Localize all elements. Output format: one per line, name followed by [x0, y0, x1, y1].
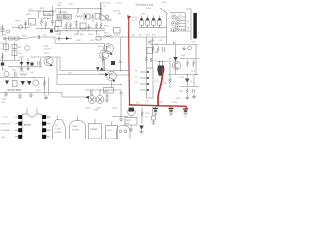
wire: verticals below y74.5	[187, 75, 194, 87]
wire: stub above IC852	[77, 116, 79, 121]
regulator IC851 (chamfered arch)	[53, 120, 66, 139]
wires: right pin leads	[46, 117, 49, 137]
node on supply bus	[100, 8, 101, 9]
dropper component 2 (dark+green)	[170, 107, 172, 109]
svg-text:1k: 1k	[155, 60, 157, 62]
node	[122, 37, 123, 38]
wires: socket leads to vertical bus	[175, 17, 185, 30]
svg-text:X802: X802	[65, 17, 69, 19]
wire: vertical x103 below Q405	[102, 54, 104, 71]
pin pad R3	[42, 128, 46, 132]
wire: drop to Q1101	[60, 9, 62, 15]
svg-text:25kV: 25kV	[162, 2, 167, 4]
switch S801 body	[3, 37, 6, 40]
resistor R804 vertical	[40, 18, 42, 26]
node on wire	[41, 28, 42, 29]
regulator box X851	[125, 118, 137, 126]
svg-text:BOARD: BOARD	[72, 129, 80, 132]
resistor R431 vertical	[145, 56, 147, 63]
wire: horizontal y86.5	[180, 86, 199, 88]
svg-text:B+ TP: B+ TP	[132, 20, 138, 22]
capacitor C430 bars	[148, 42, 152, 44]
svg-text:AFC: AFC	[105, 90, 110, 93]
wire: bus under cap bank	[139, 27, 167, 29]
wire: vertical line left of CRT	[190, 9, 192, 41]
wire: vertical x28	[27, 58, 29, 67]
diode D402	[20, 62, 24, 65]
wire: vertical x14.5	[14, 42, 16, 60]
CRT face (dark bar)	[193, 13, 196, 39]
wire: vertical x107 below box	[106, 93, 108, 100]
capacitor C405	[15, 72, 16, 78]
part near x96	[96, 37, 101, 41]
transistor Q404 legs	[102, 52, 106, 59]
svg-text:KIA78: KIA78	[126, 119, 132, 122]
node	[78, 30, 79, 31]
transistor Q405 body	[104, 44, 114, 54]
node	[66, 30, 67, 31]
capacitor C442	[193, 89, 194, 93]
svg-text:fly bk: fly bk	[117, 3, 122, 5]
svg-text:22 15W: 22 15W	[44, 14, 51, 16]
resistor R813 vertical	[69, 22, 71, 29]
wire: mid horizontal bus y28	[62, 27, 105, 29]
wire: horizontal under resistor pair	[36, 28, 56, 30]
IC block X803	[80, 23, 86, 29]
node	[103, 70, 104, 71]
svg-text:4.7k: 4.7k	[58, 21, 62, 23]
wire: stub above IC851	[57, 116, 59, 120]
capacitor C812	[91, 14, 94, 19]
box part near (115,28)	[114, 28, 121, 34]
ground symbol under D851	[140, 130, 144, 135]
node	[18, 77, 19, 78]
part dark (30,62)	[31, 63, 34, 66]
box part above balloons	[104, 88, 114, 94]
wire: into box	[130, 116, 132, 129]
svg-text:test pad: test pad	[113, 10, 120, 13]
wire stubs cap bank to bus	[142, 25, 160, 28]
wire: vertical x196	[195, 45, 197, 75]
resistor R811 horizontal	[76, 16, 83, 18]
transistor Q405 legs	[106, 45, 110, 52]
wire: diagonal lead	[160, 8, 168, 14]
wire: horizontal y84.5	[57, 84, 121, 86]
svg-text:reg: reg	[103, 6, 106, 8]
svg-text:1k: 1k	[190, 81, 192, 83]
wires: left pin leads	[15, 117, 18, 137]
node	[187, 74, 188, 75]
resistor R422 vertical	[102, 56, 104, 64]
red wire: horizontal highlight rail	[129, 105, 186, 106]
diode D851	[139, 126, 143, 130]
ground symbol (6,93)	[4, 92, 8, 97]
wire: vertical x170 lower	[169, 75, 171, 89]
wire: far-left vertical	[2, 25, 4, 36]
red wire: main vertical highlight	[128, 19, 131, 105]
box filter FL801	[84, 14, 90, 19]
transistor T402 body	[4, 71, 9, 76]
box part (12.5,80.5)	[13, 81, 18, 87]
svg-text:X801: X801	[57, 17, 61, 19]
svg-text:2SC: 2SC	[2, 102, 6, 104]
cap C824	[159, 16, 161, 19]
regulator IC852 (dome)	[70, 121, 86, 140]
red wire: thick drop from flyback plug	[158, 68, 163, 105]
resistor R421 horizontal	[105, 35, 112, 37]
wire: vertical at x101	[100, 2, 102, 20]
svg-text:1k: 1k	[92, 21, 94, 23]
wire: stub y20	[100, 19, 112, 21]
arrowhead left on y97 wire	[85, 96, 89, 99]
wire: vertical x166.5 to B+ rail	[166, 14, 168, 45]
transistor T401 small	[25, 46, 30, 51]
svg-text:C82x: C82x	[141, 14, 146, 16]
wire: vertical x48.5	[48, 78, 50, 96]
svg-text:(TP): (TP)	[117, 14, 121, 16]
wire: horizontal y70.5 center	[98, 70, 129, 72]
module M852 (box)	[106, 126, 118, 140]
node	[12, 77, 13, 78]
ground symbol (22,68)	[20, 67, 23, 71]
wire: horizontal y66.8	[8, 66, 42, 68]
capacitor C857 bars	[106, 96, 109, 98]
CRT socket pin 5	[172, 28, 176, 32]
resistor R805 vertical	[45, 21, 47, 29]
resistor R443 vertical	[192, 60, 194, 67]
transistor Q852 body	[107, 71, 117, 81]
svg-text:CN85: CN85	[93, 110, 99, 112]
wire: horizontal y75 stub	[110, 74, 129, 76]
flyback plug (dark blob)	[157, 66, 164, 76]
resistor R803 (boxed, dark label)	[44, 12, 54, 16]
dropper component 3 (dark)	[185, 107, 187, 109]
dropper component 1 (dark+green)	[155, 107, 157, 109]
svg-text:VERT DEF: VERT DEF	[74, 34, 85, 36]
small parts left under rail	[152, 116, 156, 120]
diode D407 pair	[96, 67, 99, 70]
node	[96, 30, 97, 31]
wire: drop from Q852 to box	[111, 81, 113, 88]
svg-text:VR80: VR80	[15, 21, 21, 23]
svg-text:2SC248: 2SC248	[44, 49, 52, 51]
wire: vertical x6	[5, 40, 7, 52]
resistor R446 vertical on x170 lower	[169, 78, 171, 84]
resistor R801 (left edge)	[1, 29, 4, 32]
wire: vertical x146.5	[146, 37, 148, 68]
svg-text:SW: SW	[18, 47, 21, 49]
svg-text:REG: REG	[108, 130, 113, 132]
pin pad R4	[42, 135, 46, 139]
wire: vertical x40.5	[40, 58, 42, 67]
CRT socket pin 3	[171, 21, 175, 25]
diode D405	[21, 81, 25, 85]
arrow head on y74.5 wire	[105, 73, 109, 76]
svg-text:180V: 180V	[26, 14, 31, 16]
diode D801 marks	[50, 30, 53, 33]
electrolytic cap bank: cap C821	[141, 16, 143, 19]
node	[104, 70, 105, 71]
capacitor C440	[163, 47, 164, 52]
ground near CRT bottom	[182, 47, 186, 51]
wire: deflection box bottom edge	[60, 70, 105, 72]
resistor R444 vertical	[186, 88, 188, 94]
pin pad L3	[18, 128, 22, 132]
box T801	[95, 14, 100, 20]
transistor Q851 (dark)	[128, 108, 136, 116]
Q851 dark cap	[129, 108, 134, 112]
node	[100, 90, 101, 91]
transistor Q803 small	[105, 15, 109, 19]
svg-text:AN5601: AN5601	[24, 124, 32, 127]
wire: vertical x121 down	[120, 90, 122, 117]
diode D403	[26, 62, 30, 65]
wire: stub y38	[56, 38, 72, 40]
ground symbol (20,95)	[18, 94, 22, 99]
jack J802 small circle	[6, 30, 9, 33]
wire: socket top lead	[170, 12, 186, 14]
capacitor C425 bars	[119, 61, 122, 63]
box part left (55.5,20.5)	[56, 21, 62, 27]
capacitor C856 bars on x121	[120, 93, 123, 95]
box part (12,50)	[12, 51, 17, 56]
transistor Q801 body	[18, 25, 22, 29]
CRT socket pin 4	[175, 25, 179, 29]
node	[104, 37, 105, 38]
svg-text:HV ADJ: HV ADJ	[44, 17, 51, 20]
node on supply bus	[78, 8, 79, 9]
svg-text:MAIN: MAIN	[73, 125, 79, 128]
wire: left cluster horizontal	[12, 27, 30, 29]
node on rail	[21, 38, 22, 39]
node	[44, 11, 45, 12]
wire: diagonal lead	[100, 13, 110, 21]
cap C822	[147, 16, 149, 19]
diode D404	[5, 81, 9, 85]
capacitor C801	[24, 23, 27, 24]
resistor R814 vertical	[95, 22, 97, 29]
wire: vertical x120.5	[120, 38, 122, 71]
node	[60, 30, 61, 31]
ground symbol (107,100)	[105, 99, 109, 103]
svg-text:GND: GND	[1, 137, 6, 139]
SCR D409 balloon	[96, 96, 104, 104]
wire: horizontal y58.5	[180, 58, 199, 60]
node	[88, 30, 89, 31]
transistor TO92 front (small dome)	[117, 126, 131, 140]
wire: mid horizontal y37	[98, 36, 167, 38]
red stub at right end	[185, 106, 186, 110]
transistor Q401 body	[44, 56, 53, 65]
resistor R807 boxed	[9, 37, 14, 40]
svg-text:R-Y 1: R-Y 1	[3, 117, 9, 119]
transistor Q401 legs	[47, 58, 51, 64]
wire: vertical x44.5	[44, 78, 46, 96]
svg-text:VIDEO IN 2: VIDEO IN 2	[1, 124, 12, 126]
transistor Q404 body	[99, 50, 108, 59]
wire: vertical x38.5	[38, 11, 40, 18]
wire: horizontal y90 right part	[85, 89, 121, 91]
connector J801 (box)	[29, 19, 36, 26]
svg-text:BSC25 N031: BSC25 N031	[8, 89, 23, 92]
wire: mid horizontal bus y31	[55, 30, 105, 32]
node	[196, 74, 197, 75]
red test-point marker (arrow + label)	[127, 15, 131, 19]
wire: stub down to balloon 2	[99, 90, 101, 95]
wire: stub down to balloon 1	[90, 90, 92, 95]
part dark left edge	[1, 63, 4, 66]
ground symbol (187,98)	[185, 95, 189, 100]
resistor R806 small	[55, 27, 59, 32]
pin pad L4	[18, 135, 22, 139]
diode D440	[173, 57, 177, 61]
cap C823	[153, 16, 155, 19]
resistor R441 vertical	[157, 46, 159, 53]
resistor R405 horizontal	[20, 74, 27, 76]
CRT socket pin 1	[172, 15, 176, 19]
wire: vertical x152.5	[152, 37, 154, 68]
wire stubs below mid bus	[60, 31, 97, 34]
node: rail junction mid	[157, 105, 159, 107]
transistor Q407 body	[172, 61, 180, 69]
TO92 eye holes	[119, 130, 122, 133]
svg-text:FRONT: FRONT	[91, 129, 99, 131]
wire: horizontal y74.5 right	[168, 74, 199, 76]
node	[121, 84, 122, 85]
svg-text:10u: 10u	[145, 117, 148, 119]
ground symbol x121	[119, 117, 123, 122]
capacitor C815	[59, 37, 60, 41]
node	[52, 11, 53, 12]
capacitor C816 vertical bars	[75, 21, 78, 29]
CRT socket pin 2	[176, 18, 180, 22]
ground symbol (153,122)	[152, 120, 156, 125]
box part (12,44)	[12, 45, 17, 49]
wire: far-left vertical x2.5	[2, 52, 4, 70]
capacitor C813	[88, 24, 91, 30]
svg-text:1.5k: 1.5k	[20, 71, 24, 73]
diode D406	[27, 81, 31, 85]
wire: lead above M852	[111, 122, 113, 126]
svg-text:B+ 115V: B+ 115V	[103, 3, 111, 5]
svg-text:1.2k: 1.2k	[29, 9, 33, 11]
resistor R402 vertical	[1, 54, 3, 60]
wire: leads above plug	[157, 61, 165, 66]
wire: horizontal y60.5	[0, 60, 20, 62]
resistor R442 vertical	[186, 60, 188, 67]
node	[112, 37, 113, 38]
wire: drop at x100	[100, 2, 102, 20]
svg-text:50Hz: 50Hz	[88, 34, 93, 36]
resistor R812 vertical	[65, 22, 67, 29]
resistor R407 vertical	[43, 80, 45, 88]
wire: corner into deflection box	[54, 37, 56, 44]
IC X802 (dark label block)	[65, 14, 72, 19]
svg-text:H.OUT: H.OUT	[114, 35, 121, 37]
IC X801 (dark label block)	[57, 14, 64, 19]
wire: horizontal y92.5 with step	[0, 93, 85, 98]
wire: vertical x21.5	[21, 58, 23, 67]
diode D810	[66, 37, 69, 40]
capacitor C431	[150, 58, 151, 62]
module M851 (box)	[89, 124, 102, 140]
wire: vertical x142	[141, 107, 143, 124]
wire: drop from rail x152.5	[152, 107, 154, 116]
wire: emitter drop to bottom edge	[104, 59, 106, 70]
dark emitter mark Q405	[110, 52, 113, 55]
ground symbol under box	[129, 129, 133, 132]
svg-text:10u: 10u	[43, 35, 46, 37]
node on wire	[45, 28, 46, 29]
part right of rail: circle	[188, 46, 192, 50]
svg-text:Technics bd: Technics bd	[135, 3, 153, 7]
dark emitter mark Q401	[50, 64, 53, 67]
ground symbol (28,68)	[26, 67, 29, 71]
node: junction on top-left bus	[40, 11, 41, 12]
can transistor Q402	[33, 80, 39, 86]
dark part near (112,62)	[111, 61, 115, 65]
node: rail junction left	[129, 104, 131, 106]
wire: horizontal y77.5	[0, 77, 44, 79]
wire: lower-left horizontal rail	[3, 37, 55, 39]
capacitor C403	[38, 61, 39, 66]
wire: socket vertical bus	[185, 13, 187, 31]
connector CN402 (tall box with pins)	[147, 68, 154, 98]
pin pad R2	[42, 122, 46, 126]
diode D441	[185, 79, 189, 83]
dark emitter mark Q852	[113, 79, 116, 82]
IC IC801 DIP body with notch	[22, 114, 42, 139]
svg-text:CHROMA 3: CHROMA 3	[1, 129, 12, 132]
resistor R808 boxed	[15, 37, 20, 40]
wire: top-left horizontal bus	[28, 10, 56, 12]
wire: socket bottom rail	[170, 30, 191, 32]
capacitor C802	[51, 6, 54, 26]
resistor R815 vertical	[100, 22, 102, 29]
wire: top supply bus	[55, 8, 102, 10]
wire: left edge of lower box	[56, 57, 58, 85]
pin pad L2	[18, 122, 22, 126]
wire: deflection box top edge	[55, 43, 105, 45]
wire: B+ rail y44.5	[150, 44, 198, 46]
ground symbol (194,96)	[192, 94, 196, 99]
wire: vertical x175.5	[175, 45, 177, 75]
box part (147,47.5)	[147, 48, 153, 54]
ground symbol (31,94)	[29, 93, 33, 98]
wires: stubs above DIP	[27, 109, 37, 115]
svg-text:12V REG: 12V REG	[58, 12, 67, 14]
node	[120, 70, 121, 71]
svg-text:5.0 RE: 5.0 RE	[55, 129, 62, 131]
resistor R851 vertical	[141, 111, 143, 118]
wire: drop from bus	[77, 9, 79, 15]
capacitor C803	[38, 35, 39, 39]
ground symbol (46,96)	[44, 95, 48, 100]
wire: left cluster vertical	[25, 21, 27, 30]
wire: vertical x170	[169, 58, 171, 75]
wire: y117 stub right	[113, 116, 129, 118]
pin pad L1	[18, 115, 22, 119]
resistor R440 vertical	[152, 46, 154, 53]
svg-text:BOARD: BOARD	[55, 131, 63, 134]
node	[34, 77, 35, 78]
wire: deflection box right edge upper	[104, 44, 106, 51]
svg-text:REG: REG	[57, 5, 62, 7]
pin pad R1	[42, 115, 46, 119]
wire: inner step left	[30, 57, 60, 71]
wire: stub to CRT top	[186, 8, 191, 10]
wire: lead above M851	[94, 119, 96, 124]
